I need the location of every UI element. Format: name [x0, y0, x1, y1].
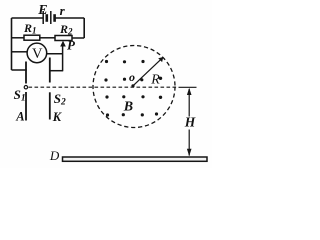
svg-text:P: P [67, 38, 76, 53]
wire slider to plate K [50, 70, 63, 72]
slider arrow P of R2 [60, 41, 66, 71]
wire R1-R2 row [12, 37, 85, 39]
wire right vertical [83, 18, 85, 38]
node O (center dot) [131, 84, 134, 87]
radius arrow R [133, 57, 163, 86]
svg-text:R: R [150, 73, 160, 88]
svg-text:S1: S1 [14, 87, 26, 104]
svg-text:D: D [49, 148, 60, 163]
svg-text:R1: R1 [23, 21, 37, 36]
voltmeter V [27, 43, 47, 63]
plate D [63, 157, 208, 161]
svg-text:V: V [32, 46, 43, 62]
field dots row 1 [105, 60, 145, 64]
field region dashed circle [93, 46, 175, 128]
svg-text:r: r [60, 3, 66, 18]
svg-text:o: o [129, 70, 135, 84]
field dots row 4 [106, 112, 158, 116]
plate K lower segment [49, 92, 51, 119]
svg-text:A: A [15, 109, 24, 123]
node S1 (small circle on beam axis) [24, 86, 27, 89]
svg-text:R2: R2 [59, 22, 73, 37]
svg-text:S2: S2 [54, 91, 66, 108]
wire left vertical [11, 18, 13, 70]
svg-text:B: B [123, 100, 133, 115]
svg-text:E: E [37, 3, 47, 18]
battery E [43, 11, 54, 24]
field dots row 2 [104, 77, 162, 82]
wire voltmeter left [12, 51, 28, 53]
plate A lower segment [25, 92, 27, 121]
dimension H vertical line upper part with up arrow [187, 88, 192, 117]
plate K upper segment [49, 58, 51, 83]
resistor R2 (rheostat) [55, 36, 72, 41]
wire voltmeter right [46, 53, 62, 55]
field dots row 3 [105, 95, 162, 99]
svg-text:H: H [184, 115, 196, 130]
dimension H vertical line lower part with down arrow [187, 130, 192, 157]
beam axis dashed line [29, 86, 178, 88]
plate A upper segment [25, 62, 27, 84]
wire top (battery row) [12, 17, 85, 19]
resistor R1 [24, 35, 40, 40]
solid tick at right end of axis [179, 86, 197, 88]
svg-text:K: K [52, 110, 63, 124]
wire bottom left to plate A [12, 69, 27, 71]
